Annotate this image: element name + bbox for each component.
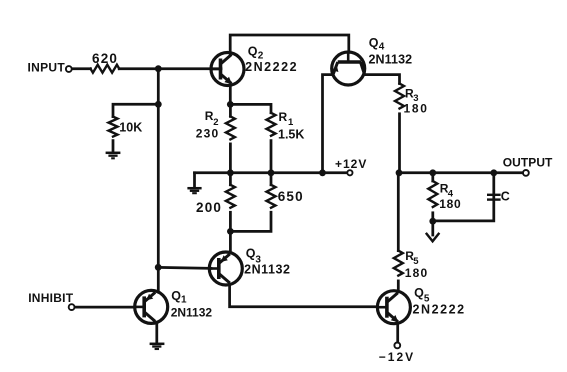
svg-text:620: 620 <box>92 51 118 66</box>
svg-text:R: R <box>279 110 288 124</box>
svg-text:OUTPUT: OUTPUT <box>503 156 553 170</box>
svg-text:180: 180 <box>405 266 429 280</box>
svg-text:Q: Q <box>246 247 256 261</box>
svg-text:2N2222: 2N2222 <box>245 60 298 74</box>
svg-text:200: 200 <box>196 200 222 215</box>
svg-text:1: 1 <box>181 295 187 306</box>
svg-text:2N1132: 2N1132 <box>244 262 290 276</box>
svg-text:1.5K: 1.5K <box>278 127 304 141</box>
svg-text:−12V: −12V <box>379 350 415 364</box>
svg-text:Q: Q <box>414 286 424 300</box>
svg-text:Q: Q <box>248 45 258 59</box>
svg-text:C: C <box>501 190 510 204</box>
svg-text:2N1132: 2N1132 <box>369 52 413 66</box>
svg-text:10K: 10K <box>119 120 142 134</box>
svg-text:2N1132: 2N1132 <box>171 305 213 319</box>
svg-text:5: 5 <box>413 256 419 267</box>
svg-text:180: 180 <box>404 101 429 115</box>
svg-text:INHIBIT: INHIBIT <box>28 291 73 305</box>
svg-text:650: 650 <box>278 189 304 204</box>
svg-text:2N2222: 2N2222 <box>413 302 466 316</box>
svg-text:180: 180 <box>439 197 461 211</box>
svg-text:Q: Q <box>171 289 181 303</box>
svg-text:230: 230 <box>196 126 220 140</box>
svg-text:Q: Q <box>369 36 379 50</box>
svg-text:INPUT: INPUT <box>28 60 66 74</box>
svg-text:+12V: +12V <box>335 157 367 171</box>
svg-text:4: 4 <box>379 42 385 53</box>
